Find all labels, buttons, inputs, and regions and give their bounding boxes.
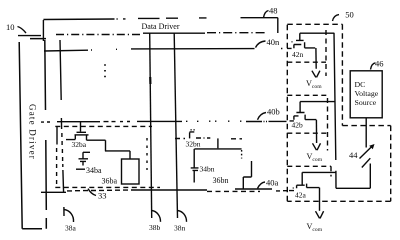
- svg-text:34ba: 34ba: [86, 166, 102, 175]
- pixel 1 dashed box top: [55, 125, 152, 127]
- Vcom arrowhead 42n: [312, 71, 320, 78]
- supply bus bottom U to 44: [336, 164, 370, 189]
- Data Driver label: [142, 22, 180, 31]
- label 40n: [267, 37, 281, 47]
- label 48: [269, 6, 278, 16]
- label 33: [98, 191, 107, 201]
- TFT 32ba output wire: [87, 135, 106, 151]
- svg-text:38n: 38n: [174, 224, 186, 233]
- TFT 42b drain wire: [300, 101, 335, 103]
- svg-text:36ba: 36ba: [102, 177, 118, 186]
- leader dash for 34ba: [76, 168, 85, 170]
- dash-dot common line right segment: [207, 32, 265, 34]
- label 36ba: [102, 177, 118, 186]
- pixel 1 dashed box left: [56, 126, 58, 144]
- svg-text:Source: Source: [355, 98, 377, 107]
- sub-box around 42b: [287, 95, 327, 150]
- Vcom label 42a: [307, 222, 323, 233]
- svg-text:42b: 42b: [292, 121, 304, 130]
- LC element 36bn fragments: [243, 161, 251, 189]
- label 10: [6, 22, 15, 32]
- Vcom label 42b: [307, 152, 323, 163]
- label 38n: [174, 224, 186, 233]
- TFT 42n: [294, 33, 315, 48]
- svg-text:Data Driver: Data Driver: [142, 22, 180, 31]
- TFT 32bn gate leg: [189, 132, 191, 138]
- data line a: [60, 40, 64, 216]
- svg-text:48: 48: [269, 6, 278, 16]
- svg-text:36bn: 36bn: [213, 176, 229, 185]
- label 32ba: [72, 140, 87, 149]
- pointer line for 10: [18, 35, 41, 37]
- variable element 44 slash: [362, 158, 371, 167]
- label 50: [345, 10, 354, 20]
- svg-text:Gate Driver: Gate Driver: [28, 104, 38, 160]
- TFT 42n drain wire: [300, 32, 334, 34]
- wire 48 (top horizontal line): [43, 18, 277, 20]
- gate driver box: [19, 39, 46, 229]
- svg-text:42a: 42a: [295, 191, 307, 200]
- TFT 32bn drain bar fragment: [190, 130, 195, 132]
- label 38a: [65, 224, 77, 233]
- sub-box around 42n: [287, 30, 326, 76]
- svg-text:DC: DC: [355, 80, 366, 89]
- dash-dot common line left segment: [56, 34, 140, 36]
- svg-text:50: 50: [345, 10, 354, 20]
- capacitor 34bn: [191, 149, 199, 183]
- svg-text:Voltage: Voltage: [355, 89, 379, 98]
- row ellipsis dots: [104, 64, 106, 77]
- Gate Driver label (rotated): [28, 104, 38, 160]
- svg-text:38a: 38a: [65, 224, 77, 233]
- data line n end arc (38n): [178, 211, 187, 222]
- TFT 42a drain wire: [302, 171, 336, 173]
- variable element 44 arrow: [360, 146, 373, 159]
- label 46: [375, 58, 384, 68]
- leader for 50: [333, 15, 340, 21]
- label 36bn: [213, 176, 229, 185]
- gate line row 2 (40b): [57, 120, 294, 123]
- TFT 32bn gate line dash-dot: [196, 137, 210, 139]
- LC element 36ba (rectangle): [122, 159, 140, 184]
- svg-text:33: 33: [98, 191, 107, 201]
- wire 48 vertical drop: [277, 18, 279, 33]
- Vcom label 42n: [306, 79, 322, 90]
- data line b ink blob: [149, 77, 151, 84]
- svg-text:40b: 40b: [267, 107, 280, 117]
- label 44: [349, 150, 358, 160]
- label 38b: [149, 223, 161, 232]
- TFT 42a gate dot: [293, 187, 294, 189]
- svg-text:46: 46: [375, 58, 384, 68]
- TFT 32ba source leg: [66, 135, 75, 140]
- pixel 2 dashed box bottom: [207, 190, 260, 192]
- sub-box around 42a: [287, 166, 331, 176]
- capacitor 34ba: [79, 152, 89, 165]
- TFT 32ba gate bar: [75, 134, 89, 136]
- svg-text:10: 10: [6, 22, 15, 32]
- leader for 48: [264, 11, 269, 18]
- svg-text:40n: 40n: [267, 37, 281, 47]
- label 34ba: [86, 166, 102, 175]
- Vcom arrowhead 42a: [316, 211, 324, 218]
- pixel 1 dashed box right: [146, 138, 148, 170]
- Vcom wire 42a: [319, 188, 321, 211]
- TFT 42n gate dot: [292, 41, 293, 43]
- Vcom block 50 dashed outline: [287, 24, 390, 201]
- leader for 46: [371, 63, 376, 70]
- TFT 32bn drain vertical: [217, 138, 219, 148]
- label 42n: [292, 50, 304, 59]
- data line b: [150, 33, 152, 218]
- panel left edge: [42, 20, 44, 41]
- label 34bn: [200, 165, 215, 174]
- leader for 10: [18, 27, 27, 34]
- pixel 2 node wire: [194, 148, 241, 150]
- DC box text: [355, 80, 379, 107]
- pixel 1 dashed box bottom: [55, 186, 160, 188]
- svg-text:34bn: 34bn: [200, 165, 215, 174]
- Vcom wire 42n: [315, 48, 317, 69]
- supply bus vertical: [334, 33, 336, 189]
- label 40a: [266, 178, 279, 188]
- Data Driver box bottom edge: [143, 32, 205, 34]
- data line n: [174, 33, 177, 218]
- Vcom wire 42b: [315, 120, 317, 143]
- TFT 32ba drain bar: [77, 131, 87, 133]
- gate line row 2 left dashes: [41, 121, 50, 123]
- label 40b: [267, 107, 280, 117]
- svg-text:42n: 42n: [292, 50, 304, 59]
- leader for 40a: [258, 182, 266, 188]
- wire from DC source down: [365, 118, 367, 148]
- leader for 33: [88, 189, 96, 196]
- DC Voltage Source box 46: [350, 71, 382, 118]
- data line a end arc (38a): [64, 210, 74, 223]
- label 42b: [292, 121, 304, 130]
- label 32bn: [186, 139, 201, 148]
- svg-text:44: 44: [349, 150, 358, 160]
- gate line row 1 (40n): [44, 48, 292, 51]
- data line b end arc (38b): [152, 211, 161, 222]
- svg-text:32bn: 32bn: [186, 139, 201, 148]
- leader for 40b: [258, 113, 267, 120]
- Vcom arrowhead 42b: [313, 143, 321, 150]
- TFT 42a: [297, 172, 320, 188]
- TFT 32ba drain stub: [80, 122, 82, 132]
- gate line row 3 (40a): [41, 189, 294, 192]
- svg-text:32ba: 32ba: [72, 140, 87, 149]
- label 42a: [295, 191, 307, 200]
- leader for 40n: [256, 41, 266, 48]
- TFT 42b: [294, 102, 317, 120]
- svg-text:40a: 40a: [266, 178, 279, 188]
- pixel 2 dashed box top: [175, 138, 242, 140]
- svg-text:38b: 38b: [149, 223, 161, 232]
- pixel 1 node wire: [83, 151, 130, 159]
